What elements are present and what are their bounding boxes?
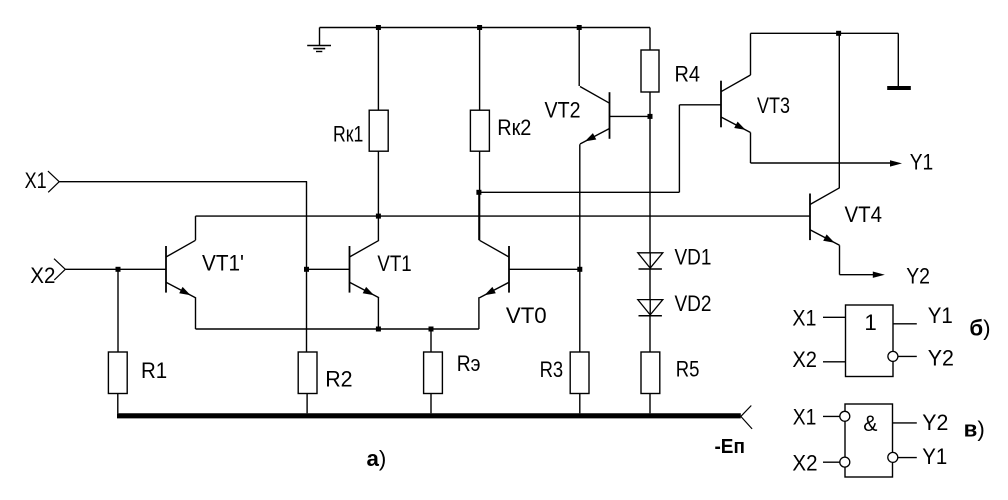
wire R3 bottom xyxy=(579,394,581,414)
wire VT3 base link xyxy=(479,191,680,193)
wire Y1 output xyxy=(751,162,892,164)
resistor Re xyxy=(424,352,443,394)
transistor VT1' xyxy=(165,246,167,293)
gate b) body xyxy=(846,305,894,377)
wire VD2 to R5 xyxy=(649,316,651,352)
wire VT0 emitter down xyxy=(478,297,480,329)
gate v) inversion bubble X2 xyxy=(840,457,850,467)
svg-text:R1: R1 xyxy=(141,358,167,383)
svg-text:X1: X1 xyxy=(25,168,47,193)
gate b) output Y1 wire xyxy=(893,323,917,325)
svg-text:R5: R5 xyxy=(676,357,700,382)
svg-text:R4: R4 xyxy=(675,62,701,87)
svg-text:Y1: Y1 xyxy=(928,303,953,328)
svg-text:а): а) xyxy=(367,446,387,471)
wire Rk1 top xyxy=(377,28,379,111)
wire VT1' emitter down xyxy=(195,297,197,329)
wire VT2 collector up xyxy=(578,28,580,87)
node Rk2/VT0 collector/VT3 base junction xyxy=(476,190,481,195)
input X1 terminal xyxy=(48,171,59,182)
wire R4 bottom to VD1 xyxy=(649,92,651,253)
node X1/VT1 base junction xyxy=(304,267,309,272)
svg-text:X2: X2 xyxy=(30,263,55,288)
svg-text:1: 1 xyxy=(864,310,876,335)
wire VT0 collector up xyxy=(478,192,480,240)
output Y1 arrow xyxy=(890,160,902,166)
svg-text:VT0: VT0 xyxy=(506,303,547,328)
node top rail x Rk1 xyxy=(376,25,381,30)
wire Re top xyxy=(430,329,432,352)
svg-text:R2: R2 xyxy=(325,367,352,392)
node top rail x Rk2 xyxy=(477,25,482,30)
gate v) inversion bubble Y1 xyxy=(888,452,898,462)
svg-text:в): в) xyxy=(964,416,985,441)
terminal -Ep chevron xyxy=(741,406,752,417)
svg-text:Y1: Y1 xyxy=(922,444,947,469)
gate b) input X1 wire xyxy=(823,316,846,318)
node X2/R1 junction xyxy=(116,267,121,272)
gate v) body xyxy=(845,404,893,477)
wire VT3 emitter down xyxy=(750,133,752,164)
diode VD1 xyxy=(649,253,651,269)
gate v) output Y2 wire xyxy=(893,422,917,424)
gate v) input X2 wire xyxy=(823,461,840,463)
wire X1 vertical to R2 xyxy=(306,182,308,352)
wire Rk2 top xyxy=(479,28,481,111)
transistor VT0 xyxy=(508,246,510,293)
wire R1 bottom xyxy=(117,394,119,414)
resistor Rk1 xyxy=(369,110,388,151)
svg-text:Y2: Y2 xyxy=(928,346,954,371)
output Y2 arrow xyxy=(873,272,885,278)
node R4/VT2 base junction xyxy=(648,114,653,119)
svg-text:&: & xyxy=(863,411,877,436)
svg-text:VD2: VD2 xyxy=(675,291,712,316)
resistor R3 xyxy=(570,352,589,394)
wire VT1 base xyxy=(307,268,350,270)
svg-text:-Еп: -Еп xyxy=(715,436,745,458)
wire -Ep supply rail xyxy=(117,413,741,418)
wire VT2 base to R4 xyxy=(610,115,651,117)
wire common terminal drop xyxy=(897,33,899,86)
wire Y2 output xyxy=(840,274,874,276)
transistor VT1 xyxy=(349,246,351,293)
svg-text:VT3: VT3 xyxy=(757,93,790,118)
transistor VT3 xyxy=(720,81,722,128)
node top right rail x VT4 collector xyxy=(836,31,841,36)
svg-text:Y2: Y2 xyxy=(922,410,948,435)
gate v) inversion bubble X1 xyxy=(840,411,850,421)
wire VT1 emitter down xyxy=(377,297,379,329)
input X2 terminal xyxy=(54,259,65,270)
wire Rk2 bottom xyxy=(479,151,481,240)
gate v) output Y1 wire xyxy=(898,457,917,459)
node top rail x VT2 collector xyxy=(577,25,582,30)
ground xyxy=(319,28,321,46)
resistor R1 xyxy=(108,352,127,394)
svg-text:Y2: Y2 xyxy=(906,264,930,289)
gate v) input X1 wire xyxy=(823,415,840,417)
resistor R4 xyxy=(641,50,659,92)
resistor R2 xyxy=(298,352,317,394)
transistor VT2 xyxy=(609,92,611,139)
wire R1 top xyxy=(117,269,119,352)
svg-text:Rк1: Rк1 xyxy=(333,121,363,146)
wire VD1 to VD2 xyxy=(649,269,651,300)
wire VT0 base xyxy=(509,268,580,270)
resistor R5 xyxy=(641,352,660,394)
wire Rk1 bottom xyxy=(377,151,379,240)
diode VD2 xyxy=(649,300,651,316)
wire R2 bottom xyxy=(306,394,308,414)
svg-text:X1: X1 xyxy=(793,405,817,430)
gate b) input X2 wire xyxy=(823,361,846,363)
resistor Rk2 xyxy=(470,110,489,151)
wire top right rail xyxy=(751,32,899,34)
svg-text:VT1': VT1' xyxy=(202,251,244,276)
wire VT1' collector up xyxy=(195,216,197,240)
wire R5 bottom xyxy=(649,394,651,414)
wire VT2 emitter down to R3 xyxy=(579,144,581,352)
gate b) output Y2 wire xyxy=(898,355,917,357)
svg-text:VT4: VT4 xyxy=(845,202,883,227)
wire VT1' collector rail to VT4 base xyxy=(196,215,811,217)
power common bar xyxy=(887,86,911,90)
wire Re bottom xyxy=(430,394,432,414)
node emitter bus x VT1 emitter xyxy=(376,327,381,332)
svg-text:X1: X1 xyxy=(792,305,816,330)
svg-text:R3: R3 xyxy=(540,357,564,382)
svg-text:Y1: Y1 xyxy=(910,150,934,175)
wire X2 to VT1' base xyxy=(65,268,166,270)
wire X1 horizontal xyxy=(59,181,307,183)
wire VT4 collector xyxy=(838,33,840,188)
node emitter bus x Re xyxy=(429,327,434,332)
svg-text:Rк2: Rк2 xyxy=(497,115,531,140)
svg-text:VT1: VT1 xyxy=(377,251,411,276)
wire VT3 collector up xyxy=(750,33,752,75)
wire VT4 emitter down xyxy=(839,245,841,274)
svg-text:б): б) xyxy=(969,316,990,341)
gate b) inversion bubble Y2 xyxy=(888,351,898,361)
wire R4 top xyxy=(649,28,651,51)
wire top rail xyxy=(320,27,651,29)
node Rk1/VT1 collector junction xyxy=(376,214,381,219)
svg-text:X2: X2 xyxy=(792,347,817,372)
wire emitter bus xyxy=(196,328,479,330)
svg-text:VD1: VD1 xyxy=(675,244,712,269)
node VT0 base/R3 junction xyxy=(577,267,582,272)
svg-text:X2: X2 xyxy=(792,450,817,475)
svg-text:Rэ: Rэ xyxy=(457,351,481,376)
svg-text:VT2: VT2 xyxy=(545,97,581,122)
transistor VT4 xyxy=(809,194,811,241)
